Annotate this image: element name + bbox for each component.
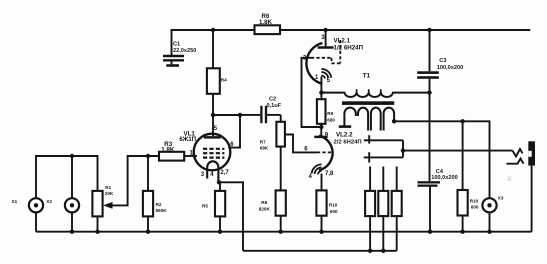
svg-text:22,0x250: 22,0x250 <box>173 48 196 54</box>
svg-text:7,8: 7,8 <box>325 171 334 177</box>
svg-text:680: 680 <box>327 117 335 122</box>
resistor R2 <box>143 156 167 232</box>
capacitor C3 <box>417 30 463 93</box>
svg-text:R9: R9 <box>327 111 333 116</box>
tube VL2.1 envelope (half) <box>306 43 322 84</box>
svg-text:1/2 6Н24П: 1/2 6Н24П <box>334 45 364 52</box>
svg-text:x: x <box>508 174 512 183</box>
wire top B+ rail <box>172 30 531 56</box>
svg-text:100,0x200: 100,0x200 <box>431 175 457 181</box>
ground (C1) <box>166 64 179 67</box>
svg-text:2/2 6Н24П: 2/2 6Н24П <box>334 140 362 146</box>
svg-text:R4: R4 <box>221 78 227 83</box>
svg-text:R5: R5 <box>202 204 208 209</box>
node: cathode/R9/T1 junction <box>319 90 323 94</box>
node: ground rail junction <box>279 230 283 234</box>
node: rail/VL2.1 anode <box>323 28 327 32</box>
potentiometer R1 <box>92 185 114 232</box>
svg-text:VL2.2: VL2.2 <box>336 132 353 139</box>
node: ground rail junction <box>460 230 464 234</box>
wire ground rail <box>36 231 532 233</box>
wire tap selector to jack <box>403 140 513 157</box>
svg-text:R8: R8 <box>261 200 267 205</box>
resistor R7 <box>260 115 285 151</box>
svg-text:1.8K: 1.8K <box>259 19 273 26</box>
wire secondary output to C3 node and R10/X3 <box>394 121 489 198</box>
svg-text:600: 600 <box>471 205 479 210</box>
node: R2 tap on grid line <box>146 154 150 158</box>
node: VL1 cathode junction <box>217 180 221 184</box>
VL2.1 designation labels <box>334 38 364 52</box>
svg-text:600: 600 <box>330 209 338 214</box>
svg-text:C1: C1 <box>173 41 180 47</box>
VL1 anode pin 5 <box>204 115 221 137</box>
resistor R9 <box>317 93 336 127</box>
T1 core <box>342 101 394 105</box>
svg-text:20K: 20K <box>105 191 114 196</box>
resistor Ra <box>365 167 375 251</box>
wire input bus <box>36 156 98 198</box>
VL1 designation labels <box>179 130 196 143</box>
tap contact 1 <box>364 135 403 143</box>
svg-text:100,0x200: 100,0x200 <box>437 65 463 71</box>
svg-text:R2: R2 <box>156 202 162 207</box>
VL2.2 anode pin 9 <box>314 127 327 137</box>
wire pin6 screen grid tie <box>228 115 240 148</box>
R1 wiper arrow <box>103 156 159 209</box>
resistor R5 <box>202 182 225 231</box>
svg-text:R10: R10 <box>470 198 479 203</box>
ground (T1 secondary) <box>339 125 351 128</box>
VL2.2 pin labels <box>304 132 334 180</box>
connector X2 <box>46 156 79 232</box>
resistor Rb <box>378 167 388 251</box>
node: screen-grid tie junction <box>238 113 242 117</box>
node: ground rail junction <box>218 230 222 234</box>
resistor R10a (VL2.2 cathode) <box>316 190 338 231</box>
capacitor C1 <box>163 41 196 64</box>
svg-text:X1: X1 <box>12 199 18 204</box>
svg-text:560K: 560K <box>156 208 168 213</box>
svg-text:Т1: Т1 <box>363 73 371 80</box>
node: ground rail junction <box>428 230 432 234</box>
svg-text:X3: X3 <box>498 195 504 200</box>
jack break contact <box>507 159 524 164</box>
resistor R3 <box>159 141 184 161</box>
svg-text:820K: 820K <box>259 206 271 211</box>
node: X2 tap <box>70 154 74 158</box>
wire anode to C2 <box>213 114 240 116</box>
VL2.2 grid pin 6 (dashed) <box>317 151 333 153</box>
tube VL1 6Zh1P envelope <box>194 134 231 171</box>
svg-text:C2: C2 <box>269 97 276 103</box>
capacitor C2 <box>240 97 282 124</box>
VL2.1 cathode arcs <box>321 69 331 79</box>
T1 primary cusps <box>357 89 381 92</box>
svg-text:R7: R7 <box>260 139 266 144</box>
svg-text:2,7: 2,7 <box>220 170 229 176</box>
node: ground rail junction <box>319 230 323 234</box>
svg-text:6Ж1П: 6Ж1П <box>179 136 196 143</box>
wire heater return line <box>243 250 397 252</box>
node: rail/C3 <box>427 28 431 32</box>
tube VL2.2 envelope (half) <box>319 136 333 171</box>
VL2.1 half-tube dashed boundary <box>332 40 341 63</box>
node: anode wire junction (R4/pin5) <box>211 113 215 117</box>
VL1 pin labels <box>189 126 234 178</box>
svg-text:0,1uF: 0,1uF <box>267 103 282 109</box>
svg-text:X2: X2 <box>46 199 52 204</box>
VL2.2 cathode arcs <box>312 164 322 174</box>
node: R9/VL2.2 anode junction <box>319 125 323 129</box>
VL2.2 cathode lead <box>321 174 323 191</box>
resistor R10 <box>458 121 479 231</box>
node: ground rail junction <box>487 230 491 234</box>
wire C3 to C4 <box>429 93 431 182</box>
capacitor C4 <box>418 169 458 232</box>
node: heater line taps <box>368 249 372 253</box>
node: rail/R4 junction <box>211 28 215 32</box>
svg-text:68K: 68K <box>260 146 269 151</box>
resistor R8 <box>259 147 286 232</box>
svg-text:R1: R1 <box>105 185 111 190</box>
jack body <box>528 141 535 231</box>
node: R10 top junction <box>460 119 464 123</box>
node: ground rail junction <box>95 230 99 234</box>
T1 primary winding <box>321 93 429 97</box>
node: selector output <box>401 148 405 152</box>
VL2.1 pin labels <box>303 35 331 84</box>
node: ground rail junction <box>146 230 150 234</box>
node: C3/T1 primary junction <box>427 90 431 94</box>
resistor Rc <box>392 167 402 251</box>
tap contact 2 <box>364 152 403 162</box>
T1 secondary winding <box>344 108 394 131</box>
resistor R6 <box>255 13 281 34</box>
VL1 heater/cathode <box>207 161 218 182</box>
node: secondary output <box>392 119 396 123</box>
connector X3 <box>482 195 503 231</box>
node: ground rail junction <box>70 230 74 234</box>
VL2.1 anode pin 3 <box>318 30 334 48</box>
svg-text:1.8K: 1.8K <box>161 146 175 153</box>
svg-text:C3: C3 <box>439 58 446 64</box>
VL1 grids (dashed rows) <box>203 149 224 158</box>
connector X1 <box>12 198 44 232</box>
svg-text:VL2.1: VL2.1 <box>334 38 351 45</box>
wire cathode to heater return <box>219 182 243 251</box>
VL2.1 cathode lead <box>320 77 322 93</box>
svg-text:R10: R10 <box>329 203 338 208</box>
VL2.1 grid pin 2 <box>302 58 332 127</box>
jack contact (tip, with break) <box>513 149 523 157</box>
wire R7 tap to VL2.2 grid <box>285 135 317 153</box>
resistor R4 <box>207 30 227 115</box>
VL1 grid pin 1 wire stub <box>184 155 197 157</box>
VL2.2 designation labels <box>334 132 362 146</box>
